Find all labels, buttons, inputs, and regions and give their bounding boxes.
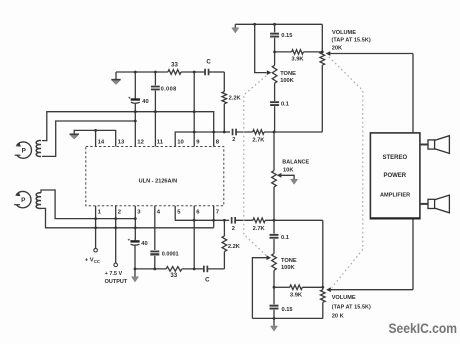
svg-text:3.9K: 3.9K xyxy=(291,57,304,63)
svg-text:10K: 10K xyxy=(283,168,294,174)
svg-text:3.9K: 3.9K xyxy=(290,292,303,298)
svg-text:12: 12 xyxy=(137,140,144,146)
svg-text:0.1: 0.1 xyxy=(281,235,289,241)
svg-text:0.15: 0.15 xyxy=(281,33,292,39)
svg-text:TONE: TONE xyxy=(281,258,297,264)
svg-text:VOLUME: VOLUME xyxy=(332,30,356,36)
svg-text:TONE: TONE xyxy=(280,71,296,77)
svg-text:VOLUME: VOLUME xyxy=(332,295,356,301)
svg-text:C: C xyxy=(205,277,210,284)
svg-text:33: 33 xyxy=(171,61,178,68)
svg-text:OUTPUT: OUTPUT xyxy=(105,279,128,285)
svg-text:14: 14 xyxy=(98,140,105,146)
svg-text:+ V: + V xyxy=(85,257,94,263)
svg-text:0.0001: 0.0001 xyxy=(162,251,179,257)
svg-text:STEREO: STEREO xyxy=(382,155,407,161)
svg-text:0.15: 0.15 xyxy=(282,307,293,313)
svg-text:AMPLIFIER: AMPLIFIER xyxy=(380,193,410,199)
svg-text:BALANCE: BALANCE xyxy=(282,160,309,166)
svg-text:40: 40 xyxy=(142,99,148,105)
svg-text:11: 11 xyxy=(157,140,164,146)
svg-text:0.1: 0.1 xyxy=(281,102,289,108)
svg-text:SeekIC.com: SeekIC.com xyxy=(389,320,458,336)
svg-text:40: 40 xyxy=(141,241,147,247)
svg-text:(TAP AT 15.5K): (TAP AT 15.5K) xyxy=(332,304,371,310)
svg-text:2.2K: 2.2K xyxy=(229,95,242,101)
svg-text:100K: 100K xyxy=(281,265,295,271)
svg-text:P: P xyxy=(22,148,27,155)
svg-text:100K: 100K xyxy=(280,78,294,84)
svg-text:33: 33 xyxy=(170,272,177,279)
svg-text:+: + xyxy=(128,238,131,243)
svg-text:13: 13 xyxy=(118,140,125,146)
svg-text:2: 2 xyxy=(232,137,235,143)
svg-text:2.2K: 2.2K xyxy=(228,244,241,250)
svg-text:2: 2 xyxy=(232,226,235,232)
svg-text:20 K: 20 K xyxy=(332,313,345,319)
svg-text:+: + xyxy=(128,96,131,101)
svg-text:ULN - 2126A/N: ULN - 2126A/N xyxy=(139,179,178,185)
svg-text:0.008: 0.008 xyxy=(161,86,177,92)
svg-text:2.7K: 2.7K xyxy=(253,226,266,232)
svg-text:+ 7.5 V: + 7.5 V xyxy=(105,271,123,277)
svg-text:20K: 20K xyxy=(332,45,343,51)
svg-text:C: C xyxy=(206,59,211,66)
svg-text:2.7K: 2.7K xyxy=(252,138,265,144)
svg-text:(TAP AT 15.5K): (TAP AT 15.5K) xyxy=(332,38,371,44)
svg-text:P: P xyxy=(21,197,26,204)
svg-text:10: 10 xyxy=(177,140,184,146)
svg-text:CC: CC xyxy=(94,259,100,264)
svg-text:POWER: POWER xyxy=(383,173,406,179)
